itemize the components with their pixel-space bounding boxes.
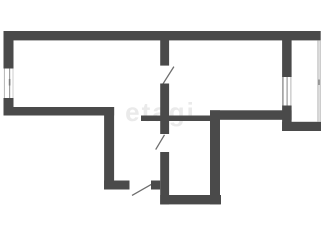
wall middle vertical segment A	[160, 40, 169, 66]
wall entrance left piece	[104, 181, 129, 190]
wall left upper	[4, 31, 14, 69]
wall middle vertical segment B	[160, 84, 169, 135]
wall bedroom-balcony upper	[282, 40, 292, 77]
wall middle thick horizontal	[210, 110, 292, 120]
wall top	[4, 31, 321, 40]
wall entrance right nub	[151, 181, 160, 190]
door D2 leaf (living-bedroom)	[163, 67, 174, 84]
wall middle vertical segment C	[160, 152, 169, 204]
balcony glazing thin double line	[318, 40, 320, 122]
wall left lower	[4, 98, 14, 116]
wall hall left vertical	[104, 107, 114, 190]
window W1 left	[4, 69, 13, 99]
door D1 entrance leaf	[132, 184, 152, 195]
wall bottom of living room	[4, 107, 115, 116]
wall bedroom-balcony lower	[282, 106, 292, 132]
wall balcony bottom	[282, 122, 321, 131]
wall thin partition bathroom top	[141, 116, 210, 122]
wall bathroom right vertical	[210, 110, 220, 204]
wall bathroom bottom	[160, 195, 221, 204]
door D3 leaf (bathroom)	[156, 135, 165, 150]
window W2 bedroom-balcony	[283, 77, 291, 106]
